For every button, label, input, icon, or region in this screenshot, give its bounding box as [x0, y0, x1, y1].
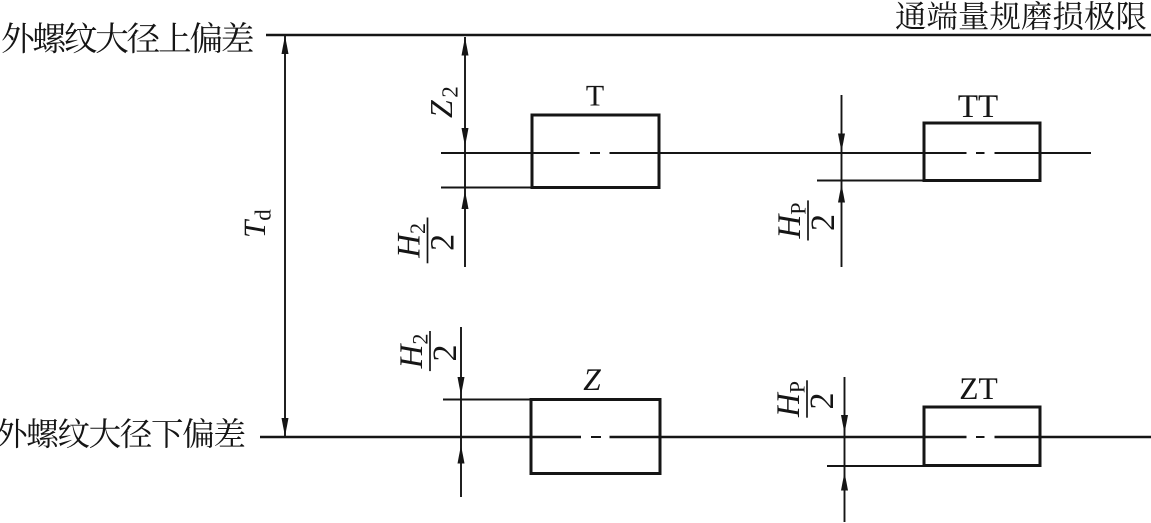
arrowhead Td top	[282, 36, 289, 55]
label: external thread major diameter upper deviation	[2, 22, 253, 53]
top boundary line (go-gauge wear limit)	[266, 34, 1151, 37]
label: external thread major diameter lower deviation	[0, 418, 244, 448]
label Z	[584, 369, 601, 390]
extension line at bottom of ZT	[827, 465, 925, 467]
extension line at bottom of TT	[817, 180, 925, 182]
bottom boundary line segment right	[995, 436, 1151, 438]
bottom boundary line segment left	[260, 436, 581, 438]
arrowhead Z2 top	[462, 37, 469, 56]
label Z2 rotated	[431, 87, 457, 117]
label T	[586, 86, 603, 106]
arrowhead H2/2 lower down	[458, 377, 465, 396]
arrowhead H2/2 lower up	[458, 445, 465, 464]
arrowhead HP/2 upper down	[838, 134, 845, 153]
fraction bar H2/2 lower	[429, 331, 431, 371]
label: go gauge wear limit	[896, 1, 1146, 30]
arrowhead Z2 bottom	[462, 128, 469, 147]
fraction bar H2/2 upper	[427, 218, 429, 264]
gauge tolerance zone Z rectangle	[531, 400, 660, 474]
arrowhead HP/2 lower up	[841, 472, 848, 491]
upper center-line dot dash in TT	[976, 152, 985, 154]
fraction bar HP/2 upper	[807, 200, 809, 240]
dimension line HP/2 upper	[841, 95, 843, 267]
label TT	[958, 95, 977, 117]
label H2/2 lower rotated	[400, 335, 456, 369]
gauge wear limit zone ZT rectangle	[924, 407, 1040, 466]
arrowhead HP/2 lower down	[841, 415, 848, 434]
upper center-line dot dash in T	[590, 152, 600, 154]
label H2/2 upper rotated	[398, 224, 454, 258]
dimension line H2/2 lower	[460, 327, 462, 497]
label HP/2 lower rotated	[777, 382, 833, 418]
upper center line segment left	[441, 152, 580, 154]
label Td rotated	[245, 210, 271, 236]
arrowhead H2/2 upper	[462, 191, 469, 210]
arrowhead HP/2 upper up	[838, 184, 845, 203]
upper center line segment middle	[610, 152, 967, 154]
extension line at bottom of T	[441, 187, 533, 189]
bottom center-line dot dash in ZT	[976, 436, 985, 438]
arrowhead Td bottom	[282, 418, 289, 437]
label HP/2 upper rotated	[778, 203, 834, 239]
dimension line Z2 and H2/2 upper	[464, 37, 466, 267]
bottom center-line dot dash in Z	[591, 436, 601, 438]
bottom boundary line segment middle	[610, 436, 967, 438]
label ZT	[961, 378, 977, 399]
extension line at top of Z	[443, 399, 532, 401]
gauge tolerance zone T rectangle	[532, 115, 659, 188]
dimension line HP/2 lower	[844, 377, 846, 522]
gauge wear limit zone TT rectangle	[924, 123, 1040, 181]
upper center line segment right	[995, 152, 1092, 154]
fraction bar HP/2 lower	[806, 380, 808, 417]
dimension line Td	[284, 36, 286, 436]
